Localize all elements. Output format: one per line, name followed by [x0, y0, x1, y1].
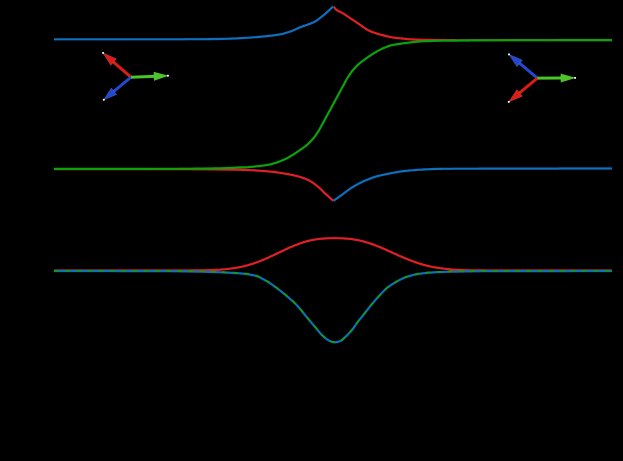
left triad red arrow (up-left): [102, 52, 131, 77]
right triad green arrow (right): [537, 74, 576, 83]
right triad red arrow (down-left): [508, 78, 538, 103]
left triad green arrow (right): [131, 72, 169, 81]
right spin axes triad: [508, 53, 576, 103]
upper-level red branch (right of cusp peak): [334, 7, 612, 40]
bottom red bump curve: [54, 238, 612, 270]
left triad blue arrow (down-left): [103, 77, 131, 101]
green S transition curve: [54, 40, 612, 169]
bottom blue dip curve: [54, 271, 612, 342]
left spin axes triad: [102, 52, 169, 101]
lower-level blue branch (right of cusp dip): [334, 169, 613, 201]
lower-level red branch (left of cusp dip): [54, 169, 334, 201]
bottom dashed green curve over blue dip: [54, 271, 612, 342]
right triad blue arrow (up-left): [508, 53, 537, 78]
upper-level blue branch (left of cusp peak): [54, 6, 333, 39]
